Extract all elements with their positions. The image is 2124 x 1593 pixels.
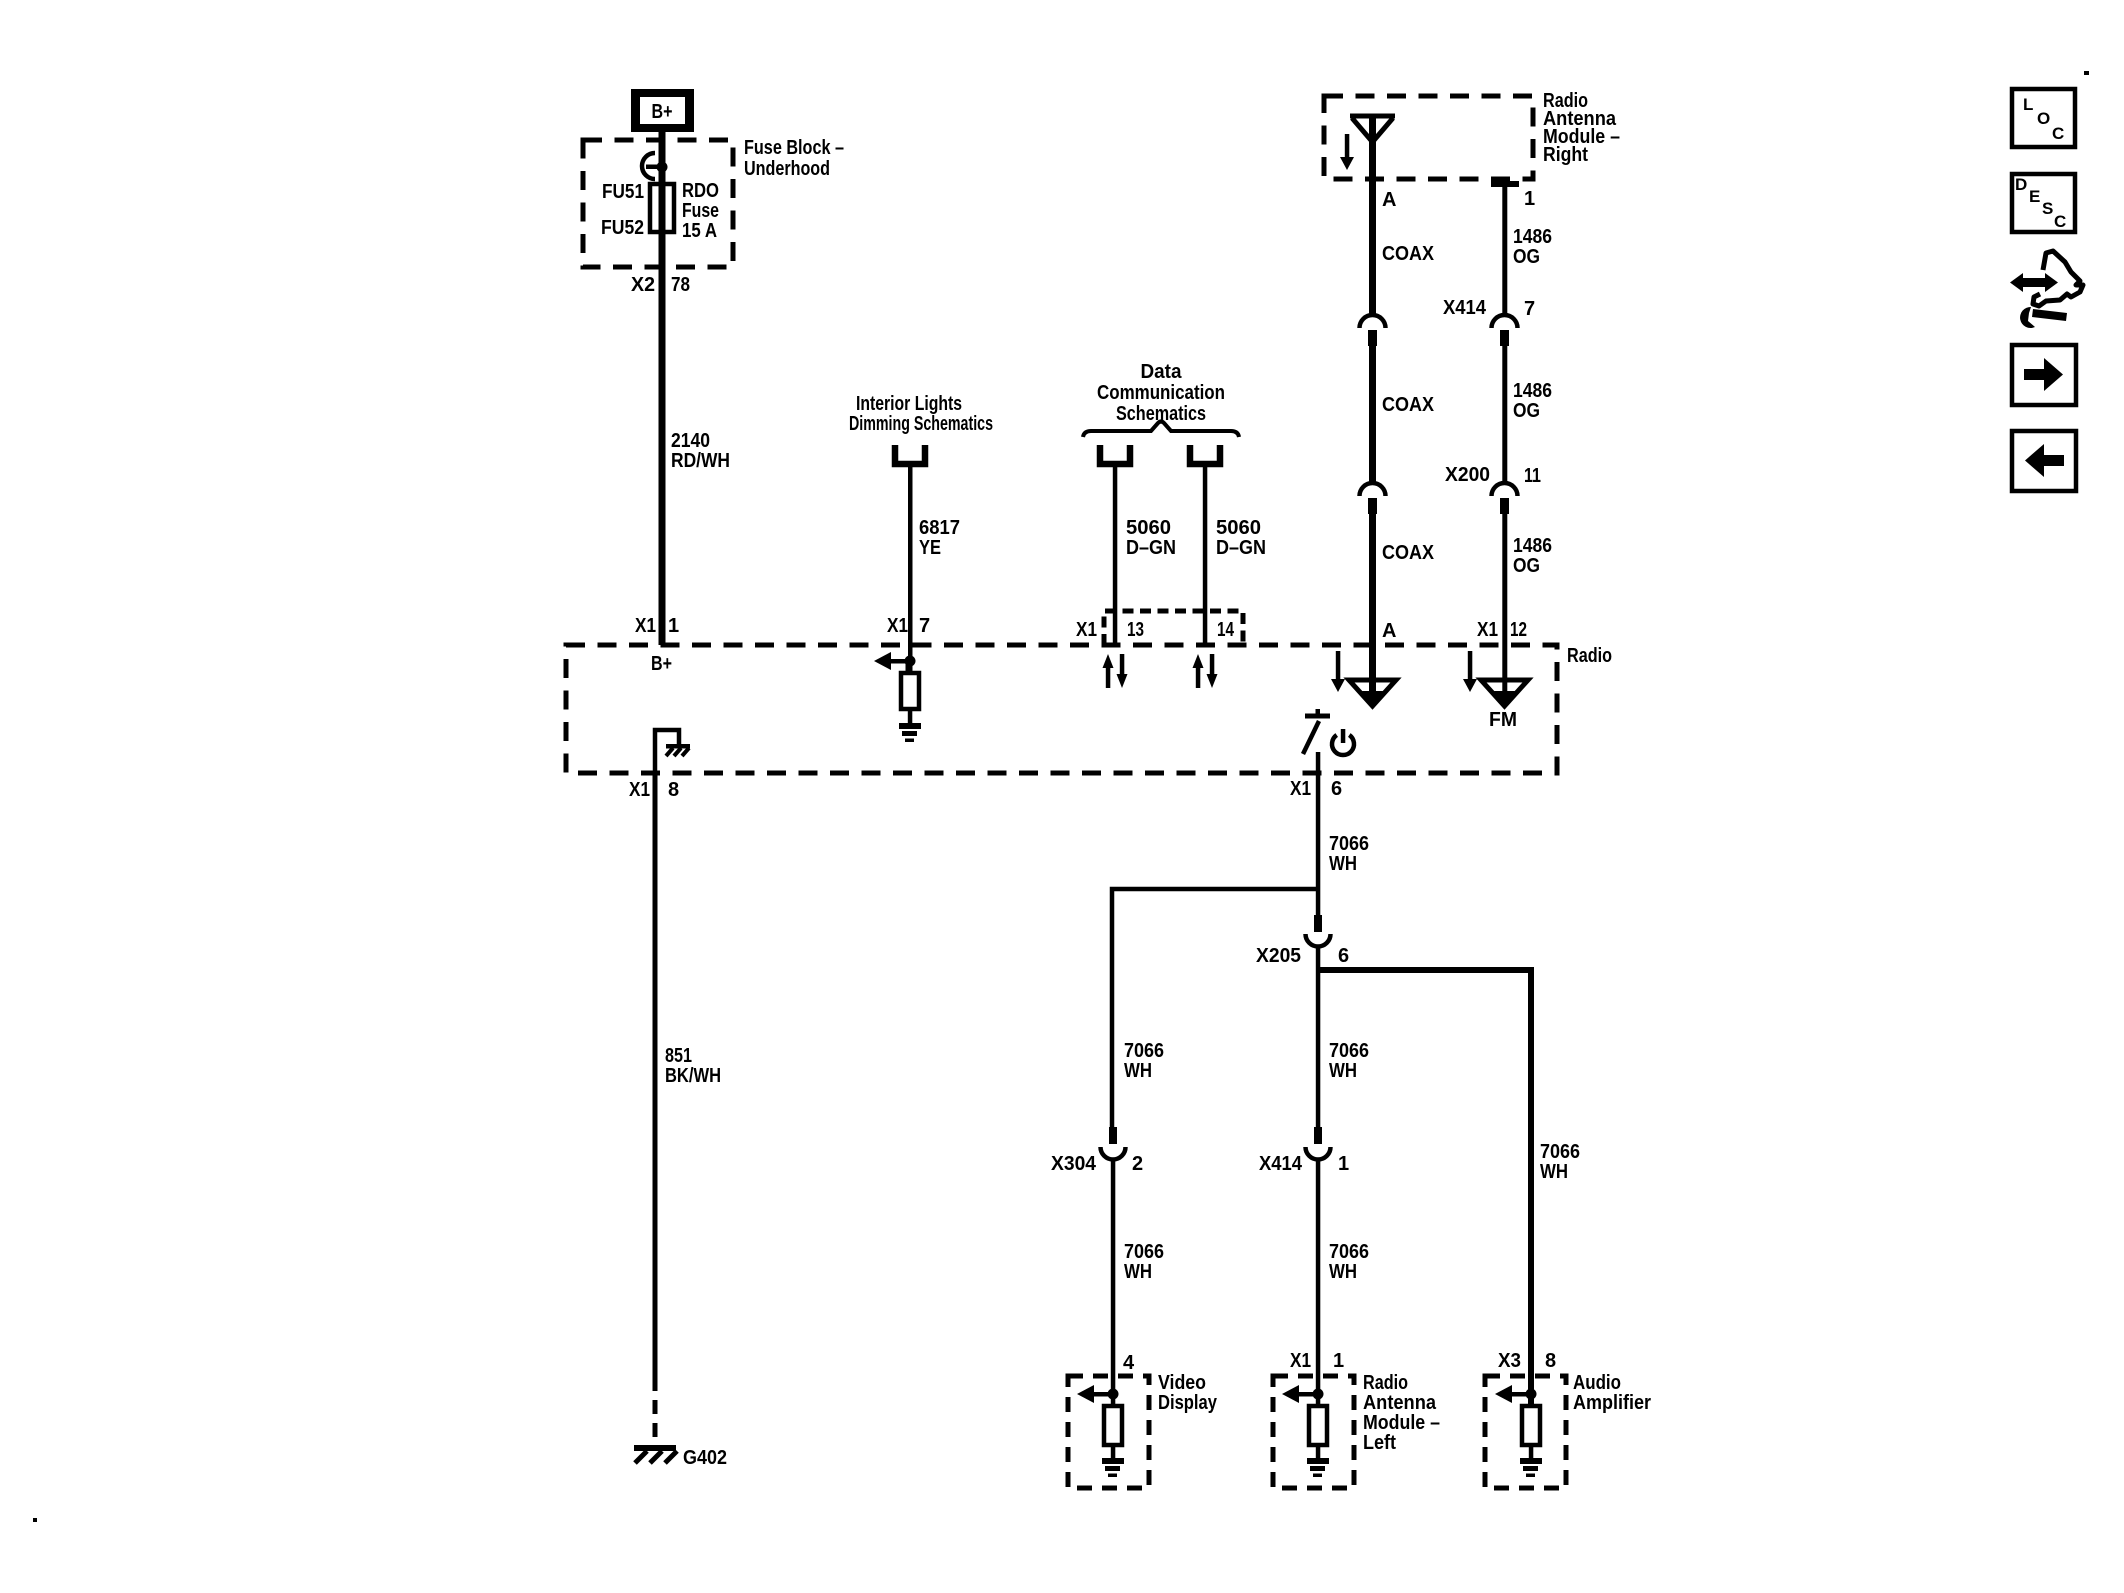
svg-text:5060: 5060 [1126, 517, 1171, 539]
LOC legend box [2012, 89, 2075, 147]
back arrow box [2012, 431, 2076, 491]
svg-text:13: 13 [1127, 619, 1144, 641]
wire 1486 OG middle segment [1502, 346, 1507, 483]
data wire 13 off-page bracket [1100, 445, 1130, 464]
video display resistor [1104, 1406, 1122, 1461]
svg-text:X200: X200 [1445, 464, 1490, 486]
svg-text:COAX: COAX [1382, 394, 1435, 416]
module left arrow [1282, 1385, 1318, 1403]
amplifier ground [1520, 1458, 1542, 1477]
connector X205-6 [1306, 915, 1331, 947]
svg-text:B+: B+ [651, 653, 672, 675]
svg-text:1: 1 [1338, 1153, 1349, 1175]
svg-text:7066: 7066 [1124, 1241, 1164, 1263]
svg-text:Radio: Radio [1363, 1372, 1408, 1394]
svg-text:X304: X304 [1051, 1153, 1097, 1175]
svg-text:Audio: Audio [1573, 1372, 1621, 1394]
svg-text:X1: X1 [1290, 778, 1311, 800]
svg-text:7066: 7066 [1124, 1040, 1164, 1062]
svg-text:1: 1 [668, 615, 679, 637]
svg-text:O: O [2037, 109, 2050, 128]
serial data arrows pin 13 [1103, 654, 1128, 688]
video display junction dot [1108, 1389, 1119, 1400]
stray dot bottom left [33, 1518, 37, 1522]
wire into radio antenna module left [1316, 1159, 1321, 1408]
svg-text:X1: X1 [887, 615, 908, 637]
svg-text:Fuse Block –: Fuse Block – [744, 137, 844, 159]
junction dot at fuse feed [657, 162, 668, 173]
svg-text:BK/WH: BK/WH [665, 1065, 721, 1087]
svg-text:Underhood: Underhood [744, 158, 830, 180]
video display ground [1102, 1458, 1124, 1477]
wire from power switch to pin X1-6 [1316, 752, 1321, 773]
radio internal ground wire [655, 730, 679, 773]
svg-text:7066: 7066 [1329, 1241, 1369, 1263]
coax wire A lower segment [1369, 514, 1376, 645]
svg-text:COAX: COAX [1382, 542, 1435, 564]
audio amplifier dashed box [1485, 1376, 1566, 1488]
svg-text:Left: Left [1363, 1432, 1396, 1454]
dimmer arrow left [874, 652, 910, 670]
svg-text:WH: WH [1540, 1161, 1568, 1183]
wire into video display [1111, 1159, 1116, 1408]
svg-text:X205: X205 [1256, 945, 1301, 967]
radio internal chassis ground symbol [666, 744, 690, 756]
dimmer junction dot [905, 656, 916, 667]
svg-text:X2: X2 [631, 274, 655, 296]
svg-text:L: L [2023, 95, 2033, 114]
svg-text:Amplifier: Amplifier [1573, 1392, 1651, 1414]
power feed terminal B+ [631, 89, 694, 132]
svg-text:WH: WH [1329, 1060, 1357, 1082]
coax wire A upper segment [1369, 116, 1376, 315]
stray dot top right [2084, 71, 2089, 75]
svg-text:6: 6 [1331, 778, 1342, 800]
svg-text:1486: 1486 [1513, 535, 1552, 557]
svg-text:COAX: COAX [1382, 243, 1435, 265]
svg-text:Right: Right [1543, 144, 1588, 166]
svg-text:WH: WH [1329, 853, 1357, 875]
svg-text:Fuse: Fuse [682, 200, 719, 222]
svg-text:C: C [2052, 124, 2064, 143]
svg-text:WH: WH [1124, 1060, 1152, 1082]
svg-text:FU52: FU52 [601, 217, 644, 239]
serial data arrows pin 14 [1193, 654, 1218, 688]
svg-text:15 A: 15 A [682, 220, 717, 242]
svg-text:2: 2 [1132, 1153, 1143, 1175]
module left resistor [1309, 1406, 1327, 1461]
interior lights dimming off-page bracket [895, 445, 925, 464]
coax wire A middle segment [1369, 346, 1376, 483]
wire 5060 D-GN right [1203, 467, 1208, 645]
radio antenna module left dashed box [1273, 1376, 1354, 1488]
radio power on symbol [1332, 729, 1354, 755]
video display arrow left [1077, 1385, 1113, 1403]
amplifier junction dot [1526, 1389, 1537, 1400]
svg-text:1: 1 [1333, 1350, 1344, 1372]
svg-text:8: 8 [1545, 1350, 1556, 1372]
svg-text:OG: OG [1513, 400, 1540, 422]
amplifier arrow [1495, 1385, 1531, 1403]
svg-text:1: 1 [1524, 188, 1535, 210]
svg-text:OG: OG [1513, 246, 1540, 268]
svg-text:6: 6 [1338, 945, 1349, 967]
radio AM antenna input arrow and triangle [1331, 645, 1396, 706]
brace under data communication label [1083, 422, 1239, 438]
svg-text:D: D [2015, 175, 2027, 194]
svg-text:Interior Lights: Interior Lights [856, 393, 962, 415]
wire 1486 OG lower segment [1502, 514, 1507, 645]
wire 7066 WH from radio pin X1-6 [1316, 773, 1321, 915]
svg-text:E: E [2029, 187, 2040, 206]
wire 851 BK/WH ground wire [653, 773, 658, 1377]
svg-text:Module –: Module – [1363, 1412, 1440, 1434]
svg-text:A: A [1382, 189, 1396, 211]
svg-text:S: S [2042, 199, 2053, 218]
svg-text:WH: WH [1329, 1261, 1357, 1283]
svg-text:11: 11 [1524, 465, 1541, 487]
wire below X205 [1316, 946, 1321, 1128]
in-line connector on coax X200-11 [1360, 483, 1386, 514]
wire 1486 OG upper segment [1502, 184, 1507, 315]
svg-text:X414: X414 [1443, 297, 1487, 319]
in-line connector on 1486 X200-11 [1492, 483, 1518, 514]
svg-text:Dimming Schematics: Dimming Schematics [849, 413, 993, 435]
svg-text:Data: Data [1141, 361, 1183, 383]
branch wire to video display [1112, 889, 1318, 1128]
wire 5060 D-GN left [1113, 467, 1118, 645]
svg-text:12: 12 [1510, 619, 1527, 641]
fuse block internal terminal clip [642, 153, 655, 179]
svg-text:1486: 1486 [1513, 226, 1552, 248]
svg-text:D–GN: D–GN [1126, 537, 1176, 559]
svg-text:X1: X1 [1076, 619, 1097, 641]
svg-text:7066: 7066 [1329, 833, 1369, 855]
dimmer wire into radio [908, 645, 913, 675]
svg-text:X1: X1 [629, 779, 650, 801]
connector X414-1 [1306, 1127, 1331, 1159]
svg-text:D–GN: D–GN [1216, 537, 1266, 559]
svg-text:FM: FM [1489, 709, 1517, 731]
svg-text:OG: OG [1513, 555, 1540, 577]
radio power switch symbol [1303, 709, 1330, 754]
svg-text:C: C [2054, 212, 2066, 231]
radio antenna module right dashed box [1324, 96, 1533, 179]
module left junction dot [1313, 1389, 1324, 1400]
svg-text:X1: X1 [635, 615, 656, 637]
svg-text:Communication: Communication [1097, 382, 1225, 404]
svg-text:6817: 6817 [919, 517, 960, 539]
svg-text:7: 7 [1524, 298, 1535, 320]
in-line connector on coax X414-7 [1360, 315, 1386, 346]
svg-text:RDO: RDO [682, 180, 719, 202]
svg-text:WH: WH [1124, 1261, 1152, 1283]
svg-text:5060: 5060 [1216, 517, 1261, 539]
svg-text:X3: X3 [1498, 1350, 1521, 1372]
svg-text:Display: Display [1158, 1392, 1218, 1414]
svg-text:G402: G402 [683, 1447, 727, 1469]
svg-text:14: 14 [1217, 619, 1235, 641]
svg-text:2140: 2140 [671, 430, 710, 452]
repair instructions hand and wrench icon [2010, 251, 2083, 328]
svg-text:Video: Video [1158, 1372, 1206, 1394]
svg-text:7066: 7066 [1329, 1040, 1369, 1062]
svg-text:4: 4 [1123, 1352, 1135, 1374]
antenna module down arrow [1340, 134, 1354, 170]
fuse block - underhood dashed box [583, 140, 733, 267]
forward arrow box [2012, 345, 2076, 405]
thick branch wire to audio amplifier [1318, 970, 1531, 1408]
amplifier resistor [1522, 1406, 1540, 1461]
svg-text:RD/WH: RD/WH [671, 450, 730, 472]
svg-text:7066: 7066 [1540, 1141, 1580, 1163]
module left ground [1307, 1458, 1329, 1477]
fuse FU51/FU52 RDO Fuse 15A [650, 184, 674, 232]
svg-text:7: 7 [919, 615, 930, 637]
svg-text:X1: X1 [1290, 1350, 1311, 1372]
wire 1486 OG terminal bar at module [1491, 181, 1519, 187]
connector X304-2 [1101, 1127, 1126, 1159]
svg-text:1486: 1486 [1513, 380, 1552, 402]
dimmer internal ground [899, 723, 921, 742]
svg-text:FU51: FU51 [602, 181, 644, 203]
video display dashed box [1068, 1376, 1149, 1488]
ground G402 chassis symbol [634, 1445, 677, 1463]
svg-text:Radio: Radio [1567, 645, 1612, 667]
svg-text:78: 78 [671, 274, 690, 296]
svg-text:8: 8 [668, 779, 679, 801]
svg-text:X1: X1 [1477, 619, 1498, 641]
radio dashed box [566, 645, 1557, 773]
svg-text:A: A [1382, 620, 1396, 642]
antenna symbol [1350, 114, 1395, 143]
dimmer internal resistor [901, 661, 919, 725]
mini dashed box around pins 13 14 [1104, 611, 1243, 645]
svg-text:X414: X414 [1259, 1153, 1303, 1175]
data wire 14 off-page bracket [1190, 445, 1220, 464]
svg-text:Antenna: Antenna [1363, 1392, 1437, 1414]
svg-text:B+: B+ [652, 101, 673, 123]
radio FM antenna input arrow and triangle [1463, 645, 1528, 706]
svg-text:YE: YE [919, 537, 941, 559]
dashed wire tail to G402 [653, 1377, 658, 1447]
wire 2140 RD/WH from fuse to radio pin X1-1 [659, 130, 666, 645]
wire 6817 YE dimmer [908, 467, 913, 645]
DESC legend box [2012, 174, 2075, 232]
in-line connector on 1486 X414-7 [1492, 315, 1518, 346]
svg-text:851: 851 [665, 1045, 692, 1067]
